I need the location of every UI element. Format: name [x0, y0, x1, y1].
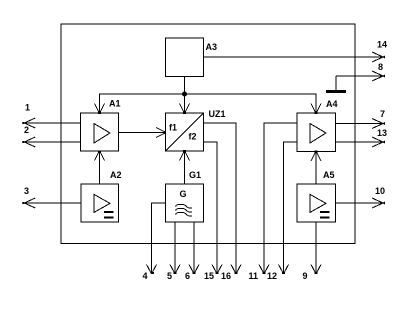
arrow into A1 bottom	[95, 151, 105, 161]
A5 triangle	[310, 194, 326, 212]
node junction dot	[182, 92, 187, 97]
wire A4 out to pin 7	[336, 123, 384, 125]
arrow pin 15	[212, 265, 222, 274]
wire A1 to UZ1	[119, 132, 166, 134]
arrow pin 4	[147, 265, 157, 274]
wire G1 bottom to pin 5	[174, 222, 176, 273]
A1 triangle	[94, 124, 110, 144]
wire A5 out to pin 10	[336, 202, 384, 204]
arrow pin 14	[372, 52, 385, 62]
wire A5 to A4	[315, 152, 317, 185]
svg-text:7: 7	[380, 109, 385, 119]
ground	[335, 76, 337, 90]
svg-text:1: 1	[25, 103, 30, 113]
wire pin 2	[24, 141, 81, 143]
UZ1 diagonal	[166, 113, 204, 151]
arrow into UZ1 left	[156, 128, 166, 138]
wire A3 bottom to junction	[184, 77, 186, 95]
wire pin 11 to A4 input	[264, 123, 297, 273]
svg-text:15: 15	[204, 271, 214, 281]
svg-text:9: 9	[303, 271, 308, 281]
arrow into UZ1 top	[180, 104, 190, 114]
G1 waves	[176, 205, 193, 209]
svg-text:11: 11	[249, 271, 259, 281]
amplifier A1	[81, 113, 119, 151]
svg-text:10: 10	[375, 186, 385, 196]
svg-text:12: 12	[267, 271, 277, 281]
arrow pin 16	[231, 265, 241, 274]
svg-text:A5: A5	[323, 170, 335, 180]
generator G1	[166, 184, 204, 222]
A2 equals sign	[104, 212, 113, 217]
svg-text:A3: A3	[206, 42, 218, 52]
svg-text:14: 14	[377, 40, 387, 50]
wire bus y=94 right to A4	[185, 94, 317, 113]
arrow pin 9	[311, 265, 321, 274]
arrow into A4 bottom	[311, 152, 321, 162]
wire G1 bottom to pin 6	[193, 222, 195, 273]
svg-text:2: 2	[24, 125, 29, 135]
block A3	[166, 38, 204, 77]
wire G1 to UZ1	[184, 151, 186, 184]
svg-text:A1: A1	[109, 99, 121, 109]
A5 equals sign	[320, 212, 329, 217]
wire pin 8	[336, 75, 383, 77]
wire G1 left to pin 4	[152, 203, 166, 273]
svg-text:A4: A4	[326, 99, 338, 109]
wire junction down to UZ1	[184, 94, 186, 113]
arrow pin 8	[372, 71, 385, 81]
wire UZ1 out2 to pin 15	[204, 142, 218, 273]
svg-text:3: 3	[24, 186, 29, 196]
arrow pin 3	[22, 198, 35, 208]
wire A2 to A1	[99, 151, 101, 184]
arrow pin 7	[372, 119, 385, 129]
svg-text:f2: f2	[189, 132, 197, 142]
svg-text:5: 5	[167, 271, 172, 281]
svg-text:8: 8	[378, 62, 383, 72]
enclosure border	[61, 24, 355, 243]
wire pin 1	[24, 122, 81, 124]
wire bus y=94 left to A1	[100, 94, 185, 113]
wire pin 14	[204, 56, 384, 58]
arrow pin 11	[259, 265, 269, 274]
wire A5 bottom to pin 9	[315, 222, 317, 273]
wire A4 out to pin 13	[336, 141, 384, 143]
arrow into A1 top	[95, 104, 105, 114]
svg-text:f1: f1	[169, 123, 177, 133]
svg-text:G1: G1	[189, 170, 201, 180]
arrow into UZ1 bottom	[180, 151, 190, 161]
svg-text:4: 4	[143, 271, 148, 281]
svg-text:G: G	[180, 189, 187, 199]
arrow pin 2	[22, 137, 35, 147]
arrow into A4 top	[311, 104, 321, 114]
svg-text:16: 16	[221, 271, 231, 281]
svg-text:UZ1: UZ1	[209, 109, 226, 119]
svg-text:13: 13	[377, 128, 387, 138]
svg-text:A2: A2	[110, 170, 122, 180]
wire UZ1 out1 to pin 16	[204, 123, 237, 273]
arrow pin 12	[279, 265, 289, 274]
mixer UZ1	[166, 113, 204, 151]
arrow pin 5	[170, 265, 180, 274]
arrow pin 13	[372, 137, 385, 147]
amplifier A4	[297, 113, 336, 152]
arrow pin 1	[22, 118, 35, 128]
svg-text:6: 6	[185, 271, 190, 281]
A4 triangle	[310, 124, 326, 144]
amplifier A2	[81, 184, 119, 222]
wire pin 3	[24, 202, 81, 204]
A2 triangle	[94, 194, 110, 212]
wire pin 12 to A4 input	[284, 142, 298, 273]
amplifier A5	[297, 184, 336, 222]
arrow pin 10	[372, 198, 385, 208]
arrow pin 6	[189, 265, 199, 274]
